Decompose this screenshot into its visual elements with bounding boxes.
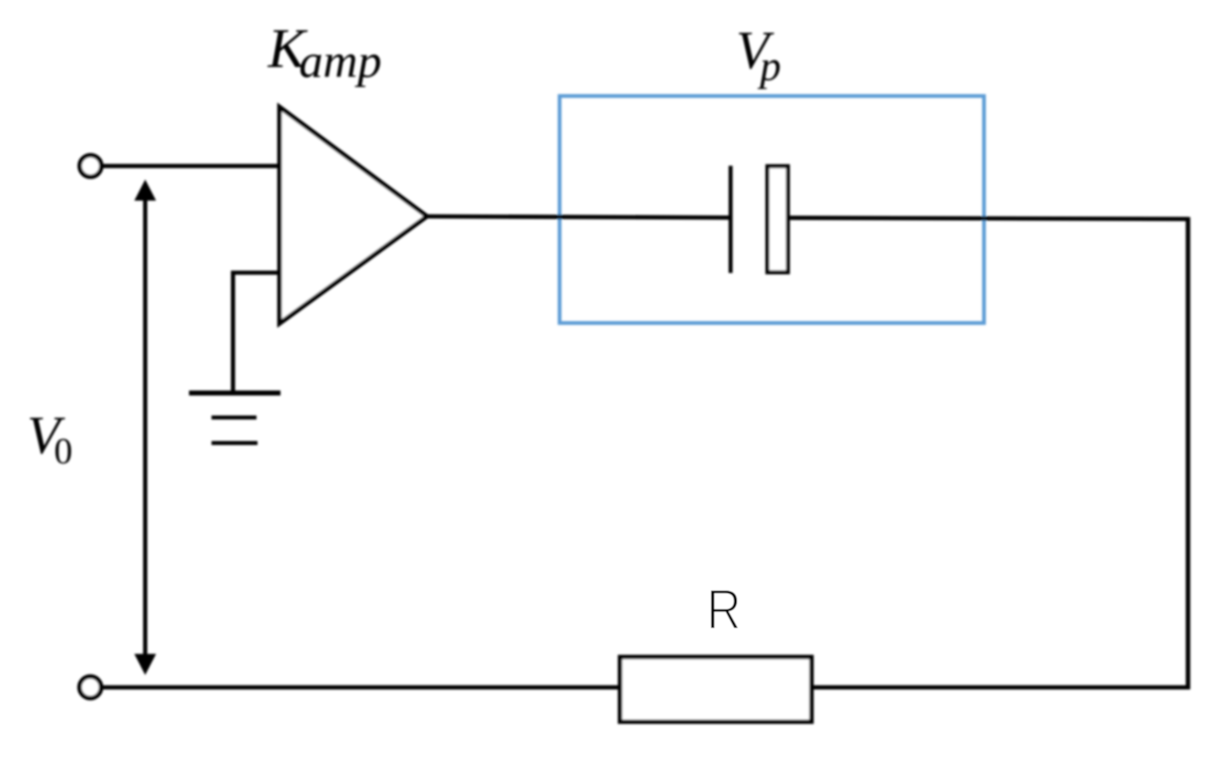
svg-text:R: R [707,578,742,642]
terminal input (top-left) [80,155,102,177]
label V0 [27,405,73,473]
terminal output (bottom-left) [80,677,102,699]
label K_amp [267,18,382,88]
op-amp K_amp (triangle) [280,107,428,324]
V0 measurement arrow (double-headed, vertical) [134,180,156,676]
wire right vertical [1186,217,1191,689]
piezo crystal (rectangle plate) [767,166,788,272]
wire bottom (terminal to right corner) [101,685,1190,689]
label Vp [736,20,781,90]
resistor R [620,657,812,722]
wire ground lead (jog from op-amp left edge) [233,273,279,391]
wire op-amp output to piezo [426,216,730,217]
svg-text:amp: amp [299,35,382,88]
svg-text:0: 0 [54,432,73,473]
piezo left plate [729,166,733,273]
box Vp (blue outline) [560,96,984,323]
ground [189,393,281,443]
wire piezo to top-right corner [790,218,1188,219]
wire input (top terminal to op-amp) [101,164,281,168]
svg-text:p: p [757,44,781,90]
